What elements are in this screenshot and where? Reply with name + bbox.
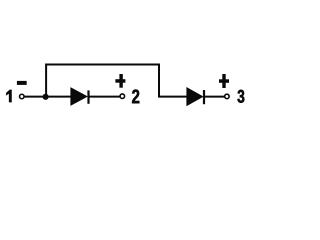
terminal 2 open circle — [120, 94, 125, 99]
diode D1 cathode bar — [87, 90, 89, 103]
wire: bypass rail from node A up over diode D1 down to anode of D2 — [46, 65, 187, 98]
label: terminal number 1 — [6, 90, 11, 102]
diode D2 cathode bar — [203, 90, 205, 104]
label: terminal number 3 — [238, 90, 245, 103]
polarity minus sign at terminal 1 — [17, 81, 27, 85]
wire: terminal 1 to anode of D1 — [24, 96, 71, 98]
polarity plus sign at terminal 3 — [219, 74, 229, 88]
diode D2 triangle (anode left, pointing right) — [186, 87, 203, 106]
wire: cathode of D1 to terminal 2 — [90, 96, 121, 98]
terminal 1 open circle — [20, 94, 25, 99]
wire: cathode of D2 to terminal 3 — [205, 96, 225, 98]
node A junction dot — [43, 94, 49, 100]
terminal 3 open circle — [225, 94, 230, 99]
diode D1 triangle (anode left, pointing right) — [70, 87, 88, 106]
label: terminal number 2 — [132, 90, 139, 104]
polarity plus sign at terminal 2 — [115, 74, 125, 88]
